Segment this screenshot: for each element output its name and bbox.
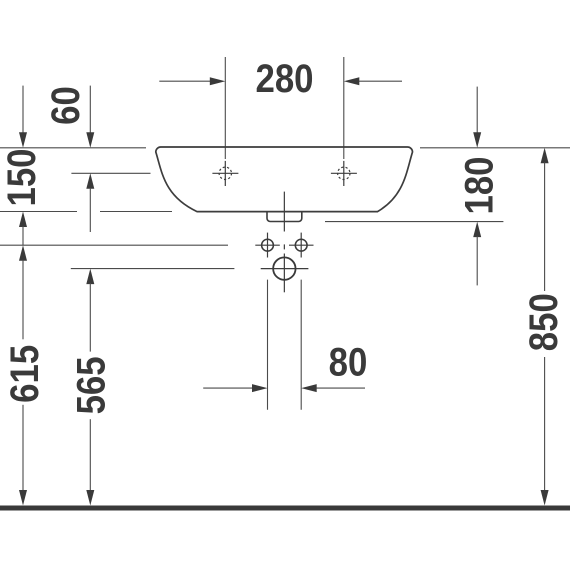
basin outline — [156, 147, 413, 212]
wire: dim 850 stem upper — [544, 162, 546, 291]
wire: dim 80 extension line left — [267, 280, 269, 410]
wire: dim 150 lower stem — [22, 226, 24, 245]
wire: dim 850 stem lower — [544, 357, 546, 491]
wire: drain hole horizontal tick — [261, 268, 309, 270]
drain hole circle — [273, 257, 295, 279]
wire: dim 60 lower stem — [89, 188, 91, 232]
node: faucet hole mark right — [331, 161, 357, 186]
wire: mounting hole right vertical tick — [300, 233, 302, 258]
svg-text:615: 615 — [2, 345, 47, 403]
wire: dim 80 extension line right — [300, 280, 302, 410]
wire: front lower rim level line part 1 — [0, 211, 77, 213]
wire: basin vertical centerline through drain hole — [283, 254, 285, 293]
wire: dim 615 stem lower — [22, 405, 24, 491]
wire: rim level line left segment — [0, 147, 146, 149]
svg-text:80: 80 — [329, 339, 368, 384]
wire: dim 80 arrow line right — [316, 387, 365, 389]
svg-text:60: 60 — [43, 86, 88, 125]
arrowhead: dim 850 up to rim line — [541, 148, 549, 164]
mounting hole right circle — [295, 239, 307, 251]
wire: dim 150 upper stem — [22, 86, 24, 134]
arrowhead: dim 565 down to floor — [86, 490, 94, 506]
wire: dim 280 extension line right — [343, 57, 345, 159]
wire: rear bottom level line right — [325, 221, 503, 223]
wire: dim 180 lower stem — [476, 236, 478, 285]
arrowhead: dim 60 down to rim line — [86, 132, 94, 148]
arrowhead: dim 150 down to rim line — [19, 132, 27, 148]
arrowhead: dim 80 pointing left — [301, 384, 317, 392]
arrowhead: dim 280 pointing right — [210, 77, 226, 85]
node: faucet hole mark left — [212, 161, 238, 186]
arrowhead: dim 280 pointing left — [344, 77, 360, 85]
mounting hole left circle — [262, 239, 274, 251]
svg-text:280: 280 — [255, 56, 313, 101]
arrowhead: dim 80 pointing right — [252, 384, 268, 392]
arrowhead: dim 615 up to mounting hole line — [19, 245, 27, 261]
wire: dim 60 upper stem — [89, 86, 91, 134]
wire: dim 565 stem lower — [89, 419, 91, 491]
wire: dim 565 stem upper — [89, 283, 91, 352]
arrowhead: dim 150 up to lower rim line — [19, 212, 27, 228]
svg-text:150: 150 — [0, 148, 44, 206]
svg-text:565: 565 — [68, 356, 113, 414]
wire: basin vertical centerline upper segment — [283, 192, 285, 232]
wire: mounting hole level line — [0, 244, 228, 246]
wire: dim 280 arrow line right — [358, 80, 402, 82]
arrowhead: dim 850 down to floor — [541, 490, 549, 506]
wire: mounting hole left vertical tick — [267, 233, 269, 258]
wire: basin vertical centerline short dash — [283, 244, 285, 249]
svg-text:850: 850 — [521, 293, 566, 351]
wire: dim 280 extension line left — [224, 57, 226, 159]
wire: mounting hole left horizontal tick — [255, 244, 279, 246]
arrowhead: dim 60 up to faucet axis line — [86, 173, 94, 189]
wire: dim 280 arrow line left — [159, 80, 211, 82]
arrowhead: dim 180 up to rear bottom line — [473, 222, 481, 238]
arrowhead: dim 180 down to rim line — [473, 132, 481, 148]
arrowhead: dim 565 up to drain hole line — [86, 269, 94, 285]
wire: dim 615 stem upper — [22, 260, 24, 340]
floor line — [0, 506, 570, 511]
drain outlet box — [267, 212, 302, 222]
wire: drain hole level line — [71, 268, 235, 270]
wire: dim 80 arrow line left — [203, 387, 253, 389]
svg-text:180: 180 — [456, 156, 501, 214]
wire: mounting hole right horizontal tick — [289, 244, 314, 246]
wire: faucet axis level line left — [71, 172, 150, 174]
wire: front lower rim level line part 2 — [100, 211, 172, 213]
arrowhead: dim 615 down to floor — [19, 490, 27, 506]
wire: dim 180 upper stem — [476, 87, 478, 134]
wire: rim level line right segment — [420, 147, 570, 149]
